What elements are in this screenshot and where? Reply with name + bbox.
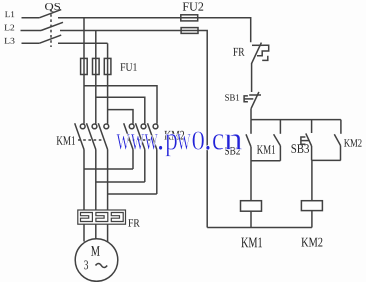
contactor KM2 linkage dashed (127, 139, 153, 141)
wire FR to SB1 (251, 63, 253, 92)
contactor KM2 main contact 2 (136, 123, 146, 182)
wire L2 right segment through FU2 down to control bottom rail (60, 31, 207, 228)
contactor KM1 main contact 3 (98, 123, 108, 210)
wire phase A drop from L1 (83, 18, 85, 124)
wire motor lead A (83, 224, 85, 241)
pushbutton SB1 NC stop (244, 92, 261, 109)
pushbutton SB2 NO start forward (246, 120, 251, 161)
label M motor (91, 246, 100, 256)
node L1 label (5, 11, 14, 17)
contactor KM1 main contact 2 (87, 123, 97, 210)
switch QS pole 2 blade (41, 22, 63, 30)
coil KM1 (241, 201, 262, 212)
label FU2 (183, 2, 204, 10)
wire L3 left segment (22, 42, 40, 44)
wire crossover phase C to KM2 left column (108, 110, 133, 124)
thermal relay FR heater element c (111, 213, 123, 222)
switch QS pole 3 blade (39, 35, 61, 43)
watermark www.pw0.cn (116, 131, 242, 156)
label SB2 (225, 147, 240, 155)
wire SB1 to control rail (250, 109, 252, 120)
wire crossover phase B to KM2 middle column (96, 97, 145, 124)
node L3 label (4, 38, 14, 44)
wire motor lead B (95, 224, 97, 239)
wire control rail top node (251, 119, 341, 121)
fuse FU1 element a (81, 58, 88, 74)
wire phase B drop from L2 (95, 31, 97, 124)
fuse FU1 element c (104, 58, 111, 74)
contactor KM1 linkage dashed (78, 139, 104, 141)
fuse FU1 element b (93, 58, 100, 74)
switch QS pole 1 blade (39, 10, 61, 18)
wire to KM2 coil (311, 160, 313, 200)
wire L1 left segment (22, 17, 40, 19)
switch QS linkage dashed (50, 9, 52, 47)
wire crossover phase A to KM2 right column (84, 86, 157, 124)
label KM2 aux contact (344, 139, 361, 146)
wire KM2 col3 merge to phase C (108, 193, 157, 195)
wire merge rail SB3 KM2aux (312, 159, 341, 161)
wire phase C drop from L3 (107, 43, 109, 124)
motor AC tilde (96, 264, 108, 268)
coil KM2 (301, 201, 322, 211)
contactor KM2 main contact 1 (124, 123, 134, 169)
contact KM2 auxiliary seal-in (334, 120, 341, 161)
label FU1 (120, 63, 136, 71)
wire merge rail SB2 KM1aux (251, 160, 280, 162)
fuse FU2 element b (181, 28, 198, 34)
label KM2 coil (301, 238, 322, 247)
label FR heater (128, 219, 139, 226)
label KM1 coil (241, 238, 262, 248)
label FR control contact (233, 48, 244, 56)
pushbutton SB3 NO start reverse (301, 120, 312, 161)
contactor KM1 main contact 1 (75, 123, 85, 210)
wire motor lead C (107, 224, 109, 241)
wire KM1 coil to bottom rail (250, 211, 252, 227)
thermal relay FR heater element b (96, 213, 108, 222)
wire KM2 col1 merge to phase A (84, 168, 133, 170)
contactor KM2 main contact 3 (148, 123, 158, 194)
label 3 motor phases (84, 260, 88, 269)
label KM1 aux contact (257, 145, 275, 154)
label QS (45, 3, 60, 12)
thermal relay FR NC contact control (252, 43, 269, 64)
wire L2 left segment (21, 30, 42, 32)
wire L1 right segment through FU2 to corner down (58, 18, 251, 42)
wire L3 right segment (58, 42, 108, 44)
label KM2 main contacts (164, 131, 184, 140)
thermal relay FR heater box (78, 210, 126, 224)
motor M 3-phase circle (75, 239, 118, 282)
wire to KM1 coil (250, 161, 252, 201)
contact KM1 auxiliary seal-in (274, 120, 281, 161)
thermal relay FR heater element a (81, 213, 93, 222)
wire KM2 col2 merge to phase B (96, 181, 145, 183)
wire KM2 coil to bottom rail (311, 211, 313, 228)
label SB3 (292, 144, 309, 153)
node L2 label (4, 25, 14, 31)
wire bottom control rail (207, 227, 312, 229)
label SB1 (225, 94, 239, 100)
fuse FU2 element a (181, 15, 198, 21)
label KM1 main contacts (57, 136, 75, 145)
